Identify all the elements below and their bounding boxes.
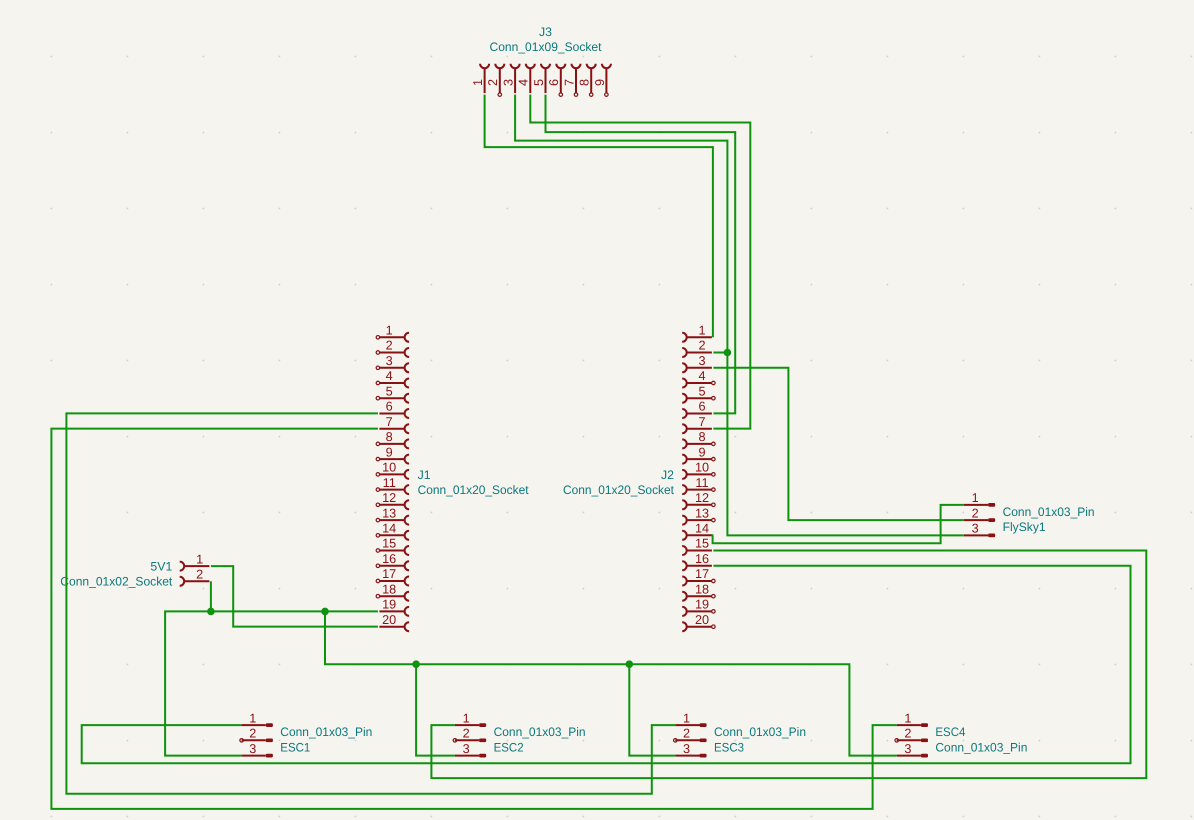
svg-text:7: 7 xyxy=(386,415,393,429)
wire power rail branch to ESC2 pin3 xyxy=(416,664,455,755)
svg-text:11: 11 xyxy=(695,476,708,490)
svg-text:6: 6 xyxy=(386,400,393,414)
svg-text:18: 18 xyxy=(382,582,396,596)
svg-text:Conn_01x20_Socket: Conn_01x20_Socket xyxy=(418,483,530,497)
svg-text:ESC3: ESC3 xyxy=(714,740,744,754)
5V1 pin 2 xyxy=(180,568,210,586)
wire power rail branch to ESC3 pin3 xyxy=(629,664,675,755)
J1 pin 3 xyxy=(376,354,409,372)
ESC4 pin 3 xyxy=(897,742,928,758)
svg-text:2: 2 xyxy=(972,506,979,520)
svg-text:1: 1 xyxy=(471,79,485,86)
svg-text:15: 15 xyxy=(695,537,709,551)
svg-text:3: 3 xyxy=(698,354,705,368)
J1 pin 20 xyxy=(379,613,409,631)
J1 pin 18 xyxy=(376,582,409,600)
J3 pin 5 xyxy=(532,64,550,93)
svg-text:FlySky1: FlySky1 xyxy=(1003,520,1046,534)
J2 pin 20 xyxy=(682,613,715,631)
J1 pin 5 xyxy=(376,384,409,402)
FlySky1 pin 2 xyxy=(964,506,995,522)
svg-text:ESC4: ESC4 xyxy=(935,725,965,739)
J1 pin 15 xyxy=(376,537,409,555)
svg-text:3: 3 xyxy=(463,742,470,756)
svg-text:20: 20 xyxy=(695,613,709,627)
J1 pin 19 xyxy=(379,598,409,616)
J1 pin 12 xyxy=(376,491,409,509)
wire J2 pin16 to ESC1 pin1 xyxy=(82,566,1131,764)
J2 pin 8 xyxy=(682,430,715,448)
wire J2 pin2 stub to junction xyxy=(713,352,727,354)
ESC1 pin 3 xyxy=(242,742,273,758)
ESC2 pin 2 xyxy=(453,727,486,743)
connector J2 Conn_01x20_Socket xyxy=(563,324,715,632)
J1 pin 2 xyxy=(376,339,409,357)
J2 pin 12 xyxy=(682,491,715,509)
J2 pin 9 xyxy=(682,445,715,463)
wire 5V1 pin1 to J1 pin20 xyxy=(211,566,378,627)
svg-text:J3: J3 xyxy=(539,25,552,39)
wire J2 pin14 to FlySky1 pin1 xyxy=(713,505,964,543)
svg-text:ESC2: ESC2 xyxy=(494,740,524,754)
J2 pin 17 xyxy=(682,567,715,585)
svg-text:Conn_01x03_Pin: Conn_01x03_Pin xyxy=(714,725,806,739)
J2 pin 7 xyxy=(682,415,712,433)
svg-text:Conn_01x20_Socket: Conn_01x20_Socket xyxy=(563,483,675,497)
svg-text:2: 2 xyxy=(249,727,256,741)
J2 pin 14 xyxy=(682,522,712,540)
svg-text:2: 2 xyxy=(904,727,911,741)
J1 pin 1 xyxy=(376,324,409,342)
J2 pin 1 xyxy=(682,324,712,342)
svg-text:11: 11 xyxy=(383,476,396,490)
FlySky1 pin 3 xyxy=(964,522,995,538)
ESC1 pin 1 xyxy=(242,711,273,727)
connector 5V1 Conn_01x02_Socket xyxy=(60,552,209,588)
J3 pin 1 xyxy=(471,64,489,93)
svg-text:9: 9 xyxy=(386,445,393,459)
svg-text:Conn_01x03_Pin: Conn_01x03_Pin xyxy=(935,740,1027,754)
svg-text:Conn_01x02_Socket: Conn_01x02_Socket xyxy=(60,575,173,589)
J1 pin 9 xyxy=(376,445,409,463)
FlySky1 pin 1 xyxy=(964,491,995,507)
svg-text:12: 12 xyxy=(382,491,396,505)
wire J2 pin15 to ESC2 pin1 xyxy=(431,551,1146,779)
ESC1 pin 2 xyxy=(240,727,273,743)
J2 pin 15 xyxy=(682,537,712,555)
svg-text:2: 2 xyxy=(196,568,203,582)
J2 pin 6 xyxy=(682,400,712,418)
J2 pin 5 xyxy=(682,384,715,402)
J2 pin 4 xyxy=(682,369,715,387)
wire 5V1 pin2 drop to power rail xyxy=(210,581,212,611)
svg-text:5V1: 5V1 xyxy=(150,559,172,573)
svg-text:4: 4 xyxy=(698,369,705,383)
svg-text:1: 1 xyxy=(463,711,470,725)
J1 pin 17 xyxy=(376,567,409,585)
J2 pin 13 xyxy=(682,506,715,524)
svg-text:5: 5 xyxy=(698,384,705,398)
svg-text:1: 1 xyxy=(683,711,690,725)
J2 pin 16 xyxy=(682,552,712,570)
J2 pin 18 xyxy=(682,582,715,600)
connector J1 Conn_01x20_Socket xyxy=(376,324,529,632)
svg-text:ESC1: ESC1 xyxy=(280,740,310,754)
J2 pin 10 xyxy=(682,461,715,479)
J3 pin 6 xyxy=(547,64,565,97)
J1 pin 14 xyxy=(376,522,409,540)
svg-text:8: 8 xyxy=(578,79,592,86)
J3 pin 9 xyxy=(593,64,611,97)
svg-text:17: 17 xyxy=(695,567,709,581)
J2 pin 19 xyxy=(682,598,715,616)
svg-text:13: 13 xyxy=(382,506,396,520)
wire J3 pin4 to J2 pin7 xyxy=(530,95,750,429)
svg-text:7: 7 xyxy=(562,79,576,86)
connector FlySky1 Conn_01x03_Pin xyxy=(964,491,1095,537)
svg-text:14: 14 xyxy=(695,522,709,536)
svg-text:1: 1 xyxy=(386,324,393,338)
svg-text:14: 14 xyxy=(382,522,396,536)
J1 pin 11 xyxy=(376,476,409,494)
junction ESC3 branch xyxy=(626,660,634,668)
svg-text:5: 5 xyxy=(386,384,393,398)
svg-text:Conn_01x03_Pin: Conn_01x03_Pin xyxy=(280,725,372,739)
wire J3 pin3 to FlySky1 pin3 (via J2 pin2 junction) xyxy=(515,95,964,536)
ESC3 pin 3 xyxy=(675,742,706,758)
svg-text:3: 3 xyxy=(249,742,256,756)
J1 pin 16 xyxy=(376,552,409,570)
wire power rail branch to ESC4 pin3 xyxy=(325,611,897,755)
svg-text:J2: J2 xyxy=(661,468,674,482)
J3 pin 8 xyxy=(578,64,596,97)
ESC2 pin 3 xyxy=(455,742,486,758)
J3 pin 7 xyxy=(562,64,580,97)
svg-text:10: 10 xyxy=(382,461,396,475)
svg-text:10: 10 xyxy=(695,461,709,475)
junction at J2 pin2 xyxy=(724,349,732,357)
svg-text:15: 15 xyxy=(382,537,396,551)
svg-text:17: 17 xyxy=(382,567,396,581)
svg-text:8: 8 xyxy=(386,430,393,444)
J3 pin 4 xyxy=(517,64,535,93)
connector J3 Conn_01x09_Socket xyxy=(471,25,611,96)
svg-text:1: 1 xyxy=(972,491,979,505)
svg-text:6: 6 xyxy=(698,400,705,414)
ESC3 pin 1 xyxy=(675,711,706,727)
svg-text:2: 2 xyxy=(683,727,690,741)
ESC2 pin 1 xyxy=(455,711,486,727)
junction ESC2 branch xyxy=(412,660,420,668)
svg-text:13: 13 xyxy=(695,506,709,520)
wire J1 pin7 to ESC4 pin1 xyxy=(51,429,896,809)
J1 pin 4 xyxy=(376,369,409,387)
wire J3 pin1 to J2 pin1 xyxy=(485,95,713,338)
svg-text:19: 19 xyxy=(695,598,709,612)
J3 pin 2 xyxy=(486,64,504,97)
wire J1 pin6 to ESC3 pin1 xyxy=(66,413,675,793)
svg-text:16: 16 xyxy=(382,552,396,566)
svg-text:Conn_01x03_Pin: Conn_01x03_Pin xyxy=(494,725,586,739)
svg-text:2: 2 xyxy=(463,727,470,741)
junction 5V1 pin2 / power rail xyxy=(207,608,215,616)
svg-text:20: 20 xyxy=(382,613,396,627)
J2 pin 11 xyxy=(682,476,715,494)
svg-text:1: 1 xyxy=(904,711,911,725)
svg-text:J1: J1 xyxy=(418,468,431,482)
ESC4 pin 1 xyxy=(897,711,928,727)
svg-text:16: 16 xyxy=(695,552,709,566)
connector ESC1 Conn_01x03_Pin xyxy=(240,711,373,757)
junction power rail branch xyxy=(321,608,329,616)
connector ESC2 Conn_01x03_Pin xyxy=(453,711,586,757)
svg-text:4: 4 xyxy=(386,369,393,383)
svg-text:1: 1 xyxy=(196,552,203,566)
5V1 pin 1 xyxy=(180,552,210,570)
svg-text:3: 3 xyxy=(904,742,911,756)
svg-text:9: 9 xyxy=(593,79,607,86)
svg-text:Conn_01x03_Pin: Conn_01x03_Pin xyxy=(1003,505,1095,519)
ESC4 pin 2 xyxy=(895,727,928,743)
svg-text:9: 9 xyxy=(698,445,705,459)
connector ESC4 Conn_01x03_Pin xyxy=(895,711,1028,757)
J1 pin 13 xyxy=(376,506,409,524)
J2 pin 3 xyxy=(682,354,712,372)
svg-text:19: 19 xyxy=(382,598,396,612)
J1 pin 7 xyxy=(379,415,409,433)
svg-text:12: 12 xyxy=(695,491,709,505)
svg-text:8: 8 xyxy=(698,430,705,444)
ESC3 pin 2 xyxy=(674,727,707,743)
svg-text:18: 18 xyxy=(695,582,709,596)
J1 pin 10 xyxy=(376,461,409,479)
wire J2 pin3 to FlySky1 pin2 xyxy=(713,368,964,520)
svg-text:2: 2 xyxy=(486,79,500,86)
svg-text:Conn_01x09_Socket: Conn_01x09_Socket xyxy=(490,40,603,54)
svg-text:6: 6 xyxy=(547,79,561,86)
J3 pin 3 xyxy=(502,64,520,93)
svg-text:3: 3 xyxy=(502,79,516,86)
svg-text:2: 2 xyxy=(386,339,393,353)
J2 pin 2 xyxy=(682,339,712,357)
svg-text:1: 1 xyxy=(249,711,256,725)
wire J3 pin5 to J2 pin6 xyxy=(546,95,736,414)
svg-text:7: 7 xyxy=(698,415,705,429)
svg-text:1: 1 xyxy=(698,324,705,338)
svg-text:4: 4 xyxy=(517,79,531,86)
J1 pin 6 xyxy=(379,400,409,418)
connector ESC3 Conn_01x03_Pin xyxy=(674,711,807,757)
svg-text:3: 3 xyxy=(683,742,690,756)
svg-text:2: 2 xyxy=(698,339,705,353)
svg-text:3: 3 xyxy=(972,522,979,536)
wire J1 pin19 to ESC1 pin3 xyxy=(165,611,378,755)
svg-text:5: 5 xyxy=(532,79,546,86)
J1 pin 8 xyxy=(376,430,409,448)
svg-text:3: 3 xyxy=(386,354,393,368)
